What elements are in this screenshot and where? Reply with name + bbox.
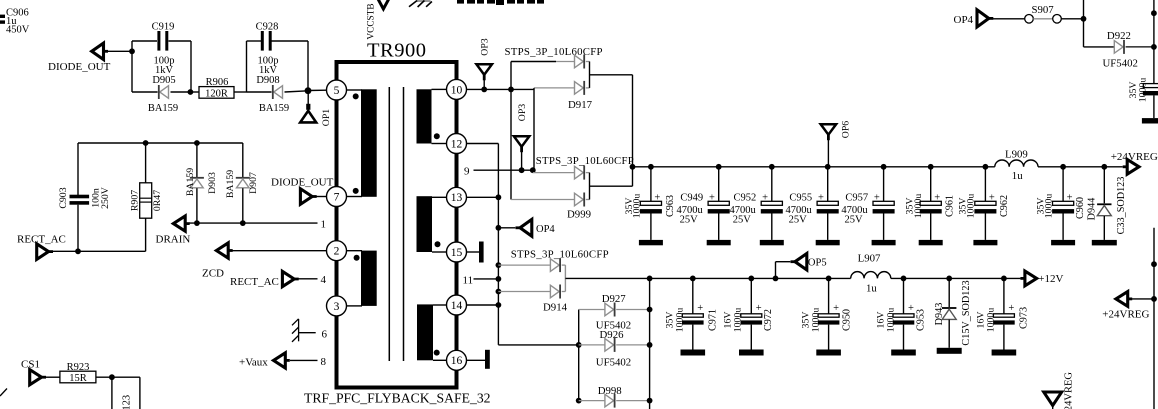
wire UF anode vertical (578, 310, 580, 401)
port +12V (1020, 271, 1063, 286)
wire to pin 5 (308, 89, 327, 91)
svg-text:D908: D908 (256, 75, 279, 86)
svg-text:C950: C950 (841, 309, 852, 331)
labels C962 (957, 194, 1010, 219)
diode D917 (dual STPS_3P_10L60CFP) (534, 55, 593, 111)
node junction D926 anode (576, 342, 582, 348)
node junction C962 (983, 164, 989, 170)
svg-text:25V: 25V (680, 215, 699, 226)
wire down at corner (139, 377, 141, 409)
svg-text:D907: D907 (248, 172, 259, 194)
node junction D903 bottom (194, 220, 200, 226)
svg-text:+: + (709, 192, 715, 203)
pin 15 termination stub (467, 242, 484, 263)
winding primary 5-7 (347, 89, 377, 197)
svg-text:C973: C973 (1019, 307, 1030, 329)
node junction D926 cathode (647, 342, 653, 348)
node junction R906 left (188, 89, 194, 95)
pin 10 (447, 79, 467, 99)
svg-text:11: 11 (463, 274, 474, 286)
wire pin10 node up to D917 top (511, 62, 556, 200)
port +24VREG (rail) (1111, 151, 1158, 174)
svg-text:D905: D905 (152, 75, 175, 86)
svg-text:1000u: 1000u (913, 194, 924, 219)
cut-off bold text at top edge (457, 0, 544, 5)
svg-text:D998: D998 (598, 385, 622, 397)
svg-text:STPS_3P_10L60CFP: STPS_3P_10L60CFP (505, 46, 603, 58)
svg-text:D943: D943 (934, 303, 945, 326)
node junction wire9/D999 (530, 167, 536, 173)
port ZCD to pin 2 (202, 243, 327, 280)
capacitor C950 (800, 278, 852, 355)
port RECT_AC to pin 4 (230, 271, 318, 288)
port OP6 (821, 121, 852, 167)
svg-text:C928: C928 (256, 22, 279, 33)
wire D999 cathode to 24V rail (590, 185, 633, 187)
svg-text:OP3: OP3 (480, 38, 491, 56)
svg-text:TR900: TR900 (367, 40, 426, 62)
node junction pin14 (496, 302, 502, 308)
node junction on C919 loop (129, 48, 135, 54)
capacitor C903 100n 250V (58, 143, 111, 251)
resistor R923 15R (45, 362, 140, 384)
node junction OP3-2 stem (519, 167, 525, 173)
svg-text:+: + (818, 192, 824, 203)
capacitor C928 100p 1kV (256, 22, 280, 86)
pin 3 (327, 296, 347, 316)
snubber loop 2 wires (247, 41, 309, 92)
svg-text:L907: L907 (858, 253, 881, 265)
svg-text:R907: R907 (130, 190, 141, 211)
wire D917 anode-2 down to wire 9 (533, 88, 535, 170)
svg-text:C15V_SOD123: C15V_SOD123 (961, 280, 972, 345)
svg-text:+Vaux: +Vaux (239, 356, 268, 368)
svg-text:C33_SOD123: C33_SOD123 (1116, 177, 1127, 235)
capacitor C953 (875, 278, 926, 355)
pin 5 (327, 80, 347, 100)
diode D905 BA159 (148, 85, 178, 114)
node junction D907 bottom (240, 220, 246, 226)
svg-text:25V: 25V (845, 215, 864, 226)
svg-text:D926: D926 (600, 329, 625, 341)
node junction OP4 (496, 225, 502, 231)
port OP4 (top right) (954, 10, 994, 27)
node junction C949 (716, 164, 722, 170)
svg-text:RECT_AC: RECT_AC (17, 233, 66, 245)
svg-text:15R: 15R (69, 373, 87, 384)
svg-text:C903: C903 (58, 187, 69, 208)
port DIODE_OUT to pin 7 (271, 177, 334, 205)
svg-text:C949: C949 (680, 192, 703, 203)
node junction C971 (690, 276, 696, 282)
svg-text:3: 3 (334, 301, 340, 313)
wire pin 14 (467, 304, 499, 306)
svg-text:9: 9 (464, 166, 470, 178)
svg-text:BA159: BA159 (185, 168, 196, 196)
capacitor C957 (872, 167, 896, 245)
svg-text:12: 12 (451, 138, 463, 150)
svg-text:1000u: 1000u (1137, 78, 1148, 103)
node junction right edge top (1151, 10, 1157, 16)
svg-text:D903: D903 (207, 172, 218, 194)
svg-text:+24VREG: +24VREG (1111, 151, 1158, 163)
port DIODE_OUT (top left) (48, 43, 111, 73)
svg-text:C962: C962 (999, 195, 1010, 217)
labels C963 (624, 194, 676, 219)
winding secondary 13-15 (417, 196, 447, 252)
labels C952 (730, 192, 769, 225)
node junction +24VREG stub (1151, 296, 1157, 302)
capacitor C962 (973, 167, 997, 245)
capacitor C963 (639, 167, 663, 245)
svg-text:7: 7 (334, 191, 340, 203)
node junction at pin 5 wire (305, 87, 312, 94)
svg-text:OP1: OP1 (321, 109, 332, 127)
inductor L909 1u (995, 149, 1038, 182)
svg-text:D914: D914 (543, 301, 568, 313)
wire right edge vertical top (1153, 0, 1155, 84)
port +24VREG (bottom, rotated) (1044, 372, 1075, 409)
diode D998 UF5402 (579, 385, 650, 408)
svg-text:1000u: 1000u (986, 308, 997, 333)
labels C955 (785, 192, 824, 225)
port VCCSTB (top, cut off) (367, 0, 391, 40)
svg-text:C957: C957 (845, 192, 868, 203)
node junction pin10/D917 (508, 87, 514, 93)
svg-text:+: + (934, 193, 940, 204)
svg-text:L909: L909 (1005, 149, 1028, 161)
labels C961 (904, 194, 955, 219)
svg-text:S907: S907 (1032, 4, 1055, 16)
diode D926 UF5402 (579, 329, 650, 368)
node junction OP3 stem (481, 87, 487, 93)
svg-text:TRF_PFC_FLYBACK_SAFE_32: TRF_PFC_FLYBACK_SAFE_32 (304, 391, 491, 406)
svg-text:1000u: 1000u (1044, 194, 1055, 219)
svg-text:+: + (756, 303, 762, 314)
diode D914 (dual STPS_3P_10L60CFP) (498, 258, 567, 313)
svg-text:16: 16 (451, 355, 463, 367)
node junction S907/vertical (1081, 16, 1087, 22)
svg-text:8: 8 (321, 356, 327, 368)
node junction C953 (901, 276, 907, 282)
pin 13 (447, 187, 467, 207)
capacitor C973 (976, 278, 1030, 355)
pin 7 (327, 187, 347, 207)
diode D927 UF5402 (579, 293, 650, 332)
node junction C963 (648, 164, 654, 170)
svg-text:15: 15 (451, 247, 463, 259)
svg-text:UF5402: UF5402 (596, 356, 631, 368)
node junction D998 cathode (647, 398, 653, 404)
svg-text:BA159: BA159 (225, 170, 236, 198)
diode D999 (dual STPS_3P_10L60CFP) (511, 166, 591, 221)
transformer TR900 box (304, 40, 491, 406)
diode D943 C15V_SOD123 (934, 278, 972, 353)
labels C957 (841, 192, 880, 225)
inductor L907 1u (851, 253, 891, 295)
svg-text:+: + (654, 193, 660, 204)
svg-text:14: 14 (451, 300, 463, 312)
svg-text:C972: C972 (763, 309, 774, 331)
node junction D998 anode (576, 398, 582, 404)
capacitor C961 (919, 167, 943, 245)
wire pin 10 net (467, 88, 535, 90)
svg-text:VCCSTB: VCCSTB (367, 3, 377, 39)
wire net B to UF5402 anodes (498, 344, 578, 346)
port +Vaux to pin 8 (239, 353, 318, 369)
svg-text:+12V: +12V (1038, 273, 1063, 285)
capacitor C960 (1035, 167, 1086, 245)
svg-text:1000u: 1000u (675, 308, 686, 333)
wire vertical from top edge to D922 (1084, 0, 1115, 47)
wire down from R923 node (111, 377, 113, 409)
svg-text:+24VREG: +24VREG (1064, 372, 1075, 409)
svg-text:R923: R923 (67, 362, 90, 373)
svg-text:C960: C960 (1075, 197, 1086, 219)
corner diagonal mark (0, 389, 7, 397)
wire pin 12 to net B vertical (467, 144, 499, 345)
svg-text:D999: D999 (567, 208, 591, 220)
winding secondary 14-16 (417, 304, 447, 360)
svg-text:250V: 250V (100, 187, 111, 209)
labels C949 (676, 192, 715, 225)
svg-text:BA159: BA159 (148, 103, 178, 114)
pin 14 (447, 295, 467, 315)
ground symbol top (409, 0, 432, 7)
node junction after R923 (109, 374, 115, 380)
pin 2 (327, 241, 347, 261)
wire pin 13 (467, 196, 499, 198)
wire OP4 to S907 (993, 18, 1025, 20)
wire DRAIN to transformer pin 1 (189, 222, 318, 224)
diode D922 UF5402 (1103, 30, 1154, 69)
svg-text:DIODE_OUT: DIODE_OUT (48, 61, 111, 73)
clamp top rail wire (78, 142, 243, 144)
svg-text:1000u: 1000u (733, 308, 744, 333)
capacitor C972 (723, 278, 775, 355)
node junction pin13 (496, 194, 502, 200)
node junction D914 anode 2 (496, 289, 502, 295)
chassis symbol at pin 6 (292, 319, 316, 342)
node junction D927 cathode (647, 307, 653, 313)
resistor R907 0R47 (130, 143, 163, 251)
svg-text:DIODE_OUT: DIODE_OUT (271, 177, 334, 189)
svg-text:1: 1 (321, 219, 327, 231)
node junction D944 (1101, 164, 1107, 170)
capacitor C955 (816, 167, 840, 245)
port DRAIN (156, 216, 191, 245)
node junction D943 (946, 276, 952, 282)
svg-text:+: + (1008, 303, 1014, 314)
winding secondary 10-12 (417, 89, 447, 143)
svg-text:STPS_3P_10L60CFP: STPS_3P_10L60CFP (536, 155, 634, 167)
svg-text:C919: C919 (152, 22, 175, 33)
svg-text:+: + (1067, 193, 1073, 204)
port OP4 (mid) (498, 219, 555, 236)
node junction C950 (826, 276, 832, 282)
snubber loop 1 wires (132, 41, 191, 92)
diode D903 BA159 (185, 143, 218, 223)
capacitor C919 100p 1kV (152, 22, 176, 86)
svg-text:10: 10 (451, 84, 463, 96)
svg-text:R906: R906 (206, 77, 229, 88)
svg-text:1000u: 1000u (966, 194, 977, 219)
node junction UF cathodes at rail (647, 276, 653, 282)
node junction C957 (881, 164, 887, 170)
pin 16 (447, 350, 467, 370)
svg-text:+: + (762, 192, 768, 203)
port RECT_AC (left) (17, 233, 66, 259)
winding primary 2-3 (347, 251, 377, 306)
svg-text:+24VREG: +24VREG (1102, 309, 1149, 321)
node junction C903 bottom (75, 248, 81, 254)
svg-text:25V: 25V (733, 215, 752, 226)
capacitor 35V 1000u (right edge) (1128, 78, 1158, 124)
svg-text:1000u: 1000u (885, 308, 896, 333)
svg-text:OP6: OP6 (840, 121, 851, 139)
node junction C960 (1060, 164, 1066, 170)
switch / jumper S907 (1025, 4, 1062, 23)
node junction D914 anode 1 (496, 262, 502, 268)
node junction C973 (1001, 276, 1007, 282)
svg-text:OP4: OP4 (954, 14, 974, 26)
svg-text:+: + (908, 303, 914, 314)
wire DIODE_OUT to snubber node (108, 50, 133, 52)
port CS1 (21, 359, 46, 385)
svg-text:RECT_AC: RECT_AC (230, 276, 279, 288)
port OP3 (first) (476, 38, 492, 89)
svg-text:C971: C971 (708, 309, 719, 331)
svg-text:+: + (874, 192, 880, 203)
svg-text:+: + (989, 193, 995, 204)
node junction D922 cathode (1151, 44, 1157, 50)
port +24VREG (right edge) (1102, 292, 1154, 321)
node junction D903 top (194, 140, 200, 146)
wire pin 9 net (474, 169, 533, 171)
wire pin 11 (474, 278, 499, 280)
svg-text:1u: 1u (1012, 170, 1023, 182)
svg-text:D917: D917 (568, 99, 593, 111)
node junction right edge mid (1151, 261, 1157, 267)
wire S907 to node (1061, 18, 1083, 20)
port OP3 (second) (514, 104, 530, 171)
node junction OP5 stem (773, 276, 779, 282)
svg-text:D944: D944 (1086, 198, 1097, 221)
port OP1 (hollow up triangle) (300, 91, 332, 127)
svg-text:DRAIN: DRAIN (156, 233, 191, 245)
wire UF cathode vertical to rail (649, 278, 651, 409)
svg-text:0R47: 0R47 (152, 190, 163, 211)
svg-text:1000u: 1000u (810, 308, 821, 333)
transformer core lines (389, 87, 403, 361)
diode D908 BA159 (259, 85, 289, 114)
svg-text:4: 4 (321, 274, 327, 286)
wire D917 cathode to 24V rail (590, 75, 633, 186)
svg-text:1000u: 1000u (632, 194, 643, 219)
node junction C952 (769, 164, 775, 170)
node junction pin11 (496, 276, 502, 282)
svg-text:+: + (697, 303, 703, 314)
svg-text:D922: D922 (1107, 30, 1131, 42)
diode D907 BA159 (225, 143, 259, 223)
svg-text:ZCD: ZCD (202, 268, 224, 280)
clamp bottom wire (49, 250, 146, 252)
wire right edge vertical bottom (1153, 228, 1155, 409)
node junction C961 (928, 164, 934, 170)
capacitor C952 (760, 167, 784, 245)
svg-text:C953: C953 (915, 309, 926, 331)
svg-text:450V: 450V (6, 25, 30, 36)
svg-text:C952: C952 (734, 192, 757, 203)
node junction rail/D917-D999 (630, 164, 636, 170)
node junction C955 (825, 164, 831, 170)
svg-text:6: 6 (322, 329, 328, 341)
svg-text:25V: 25V (789, 215, 808, 226)
capacitor C971 (665, 278, 719, 355)
svg-text:C955: C955 (789, 192, 812, 203)
capacitor C949 (707, 167, 731, 245)
wire +12V rail (565, 277, 1020, 279)
svg-text:120R: 120R (205, 88, 228, 99)
resistor R906 120R (191, 77, 247, 99)
svg-text:C15V_SOD123: C15V_SOD123 (122, 395, 133, 409)
svg-text:OP3: OP3 (517, 104, 528, 122)
wire +24VREG rail (633, 166, 1123, 168)
port OP5 (776, 254, 827, 279)
pin 12 (447, 134, 467, 154)
svg-text:C963: C963 (665, 195, 676, 217)
capacitor C906 (edge, cut off) value labels (0, 8, 30, 36)
pin 16 termination stub (467, 350, 490, 369)
pin 15 (447, 242, 467, 262)
svg-text:1u: 1u (866, 283, 877, 295)
svg-text:5: 5 (334, 85, 340, 97)
svg-text:2: 2 (334, 246, 340, 258)
diode D944 C33_SOD123 (1086, 167, 1127, 246)
svg-text:BA159: BA159 (259, 103, 289, 114)
svg-text:13: 13 (451, 192, 463, 204)
svg-text:OP4: OP4 (536, 224, 555, 235)
node junction R907 top (143, 140, 149, 146)
svg-text:+: + (833, 303, 839, 314)
svg-text:OP5: OP5 (808, 257, 827, 268)
node junction C972 (748, 276, 754, 282)
svg-text:UF5402: UF5402 (1103, 57, 1138, 69)
svg-text:C961: C961 (944, 195, 955, 217)
